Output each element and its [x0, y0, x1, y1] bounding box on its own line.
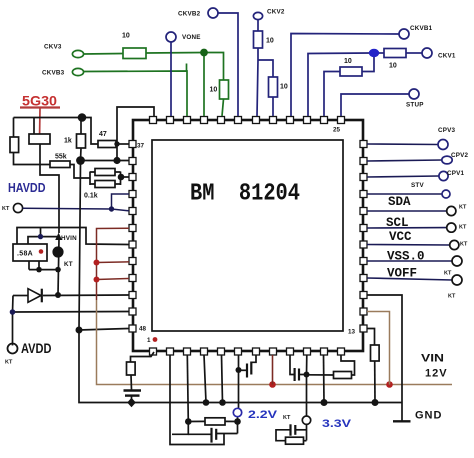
wire pin 15 GND route [367, 295, 402, 421]
node junction (82,118) [78, 113, 87, 122]
svg-text:CPV1: CPV1 [447, 170, 465, 177]
connector CKV1 [422, 48, 432, 58]
wire pin 7 to cap [251, 355, 256, 362]
wire cap right lead [299, 374, 307, 376]
wire x=79 vertical to GND rail [79, 163, 402, 403]
resistor right lead [304, 440, 307, 442]
node dot (306.5,374.5) [304, 372, 310, 378]
wire below 2.2V circle [237, 417, 239, 434]
5G30 red underline [20, 106, 60, 108]
svg-text:STV: STV [411, 182, 424, 189]
connector 2.2V (blue circle) [233, 408, 241, 416]
svg-text:13: 13 [348, 329, 356, 336]
wire CKVB3 stub [186, 64, 188, 72]
wire cap to GND rail [131, 396, 133, 403]
connector VONE [166, 32, 176, 42]
svg-text:CKV2: CKV2 [267, 9, 285, 16]
svg-text:KT: KT [460, 242, 468, 248]
diode D1 [28, 289, 41, 303]
svg-text:CKVB3: CKVB3 [42, 70, 65, 77]
connector SCL KT [447, 223, 456, 232]
node red dot (272.5,385) [269, 381, 276, 388]
wire branch to pin 26 [324, 72, 340, 117]
node dot (12.5,312) [10, 309, 16, 315]
resistor (3.3V) [286, 437, 304, 444]
connector CKVB3 [72, 68, 83, 75]
svg-text:10: 10 [280, 84, 288, 91]
svg-text:48: 48 [139, 326, 147, 333]
resistor (2.2V) [205, 418, 225, 425]
op-amp U1 BM81204 outer body [133, 120, 363, 351]
resistor 55k [50, 161, 70, 168]
svg-text:.58A: .58A [17, 251, 33, 258]
connector STUP [409, 89, 419, 99]
wire AVDD row to pin 47 [13, 311, 130, 314]
svg-text:CKV1: CKV1 [438, 53, 456, 60]
resistor 10 (CKV2 lower) [269, 77, 278, 97]
resistor below pin1 [127, 362, 136, 375]
connector CKV2 [253, 12, 262, 19]
node KT line junction [109, 206, 114, 211]
node dot (238.5,370) [236, 367, 242, 373]
0.1k leads [90, 172, 121, 184]
wire pin 20 SDA [367, 210, 447, 212]
resistor 47 [98, 141, 116, 148]
connector STV [442, 190, 450, 198]
svg-text:KT: KT [2, 206, 10, 212]
wire node down to pin 33 [203, 53, 205, 117]
wire 1k bottom lead [80, 148, 83, 161]
connector CPV2 [442, 156, 452, 164]
wire 47 to pin 37 [116, 143, 129, 145]
wire CKVB1 to pin 28 [291, 34, 399, 117]
node dot (237.5,421.5) [234, 418, 241, 425]
wire brown riser + rail [97, 300, 453, 385]
wire CKV2 down [257, 20, 259, 31]
connector SDA KT [447, 206, 456, 215]
connector KT (left) [13, 203, 22, 212]
wire pin 3 drop [187, 355, 188, 422]
wire VONE to pin 35 [170, 42, 172, 116]
U1 inner die outline [152, 140, 343, 331]
node junction (117,160.5) [113, 157, 120, 164]
wire blue node to pin 27 [308, 53, 370, 116]
svg-text:KT: KT [459, 225, 467, 231]
red dot in .58A box [39, 249, 44, 254]
5G30 red lead wire [39, 109, 42, 141]
svg-text:VOFF: VOFF [387, 267, 417, 281]
node dot (131.5,402.5) [127, 398, 136, 407]
0.1k pair left bracket [89, 172, 91, 186]
node junction (117,144) [114, 141, 119, 146]
node junction (121,177) [118, 174, 125, 181]
svg-text:CPV2: CPV2 [451, 152, 469, 159]
wire pin43 net upper rail [17, 228, 129, 245]
wire CKV3 to R [84, 53, 123, 56]
node dot (206,402.5) [203, 399, 210, 406]
wire node row y=160 to pin 38 [81, 160, 130, 162]
wire node right [204, 53, 224, 81]
resistor (pin13) [371, 345, 380, 361]
wire resistor top lead [13, 118, 15, 138]
node red dot (96.5,279.5) [94, 277, 100, 283]
svg-text:CKV3: CKV3 [44, 44, 62, 51]
wire pin 42 red [97, 228, 130, 300]
svg-text:37: 37 [137, 143, 145, 150]
svg-text:CKVB2: CKVB2 [178, 11, 201, 18]
svg-text:25: 25 [333, 127, 341, 134]
GND bar [393, 420, 411, 422]
wire pin 16 VOFF [367, 278, 452, 280]
wire STUP to pin 25 [341, 94, 409, 116]
resistor 10 (vertical green) [220, 80, 229, 99]
U1 pins top row [150, 117, 345, 124]
wire resistor bottom to 55k [14, 153, 51, 165]
wire pin 8 VIN drop (dark red) [272, 355, 274, 385]
wire pin 19 SCL [367, 227, 447, 229]
node dot (40.5,236.6) [38, 234, 43, 239]
svg-text:KT: KT [283, 415, 291, 421]
capacitor C (pin7) plates [246, 364, 248, 378]
node (green junction) [200, 49, 208, 57]
wire KT line to pins 40/41 (navy) [23, 194, 129, 211]
wire pin 18 VCC [367, 244, 450, 247]
wire cap left lead [188, 433, 211, 435]
U1 pins right column [360, 141, 367, 333]
svg-text:BM 81204: BM 81204 [190, 181, 300, 208]
svg-text:VIN: VIN [421, 353, 444, 365]
svg-text:CPV3: CPV3 [438, 127, 456, 134]
connector CKV3 [72, 50, 83, 57]
wire box top leads [28, 228, 59, 244]
svg-text:STUP: STUP [406, 102, 424, 109]
wire CKVB2 to pin 31 [218, 13, 238, 116]
connector 3.3V circle [302, 416, 310, 424]
node (blue junction CKV1) [369, 49, 379, 57]
svg-text:KT: KT [444, 271, 452, 277]
node dot (58,269.6) [55, 267, 61, 273]
test point big dot KT [52, 246, 63, 257]
resistor 0.1k lower [95, 181, 115, 188]
wire blue node down branch [362, 53, 374, 72]
connector AVDD KT circle [8, 344, 18, 354]
wire pin 13 to resistor [367, 295, 411, 421]
wire branch right [258, 60, 273, 77]
wire HVIN vertical [58, 239, 59, 295]
wire resistor to pin 29 [272, 97, 274, 116]
node dot (375,402.5) [372, 399, 379, 406]
wire cap right lead [217, 433, 238, 435]
wire pin3 to cap [172, 422, 188, 435]
wire box bottom leads [29, 261, 59, 270]
resistor 10 (CKV2 upper) [254, 31, 263, 48]
wire pin 5 drop [222, 355, 223, 403]
wire pin 2 long drop [170, 355, 224, 445]
node dot (222.5,402.5) [219, 399, 226, 406]
wire pin 9 drop [290, 355, 294, 375]
wire pin 4 drop [204, 355, 206, 403]
0.1k right bracket [120, 172, 122, 186]
wire pin 12 dogleg [341, 355, 355, 375]
svg-text:0.1k: 0.1k [84, 193, 98, 200]
wire pin 17 VSS.0 [367, 260, 452, 262]
wire to pin 48 [79, 329, 129, 331]
svg-text:HVIN: HVIN [61, 235, 77, 242]
resistor leads [188, 420, 237, 422]
resistor (pin12 to pin10 node) [334, 372, 352, 379]
svg-text:SCL: SCL [386, 216, 409, 230]
resistor R left vertical [10, 137, 19, 153]
resistor 0.1k upper [95, 169, 115, 176]
resistor bottom lead [374, 361, 376, 403]
svg-text:10: 10 [266, 38, 274, 45]
wire resistor to cap [130, 375, 133, 390]
wire diode anode [13, 295, 28, 297]
node dot (188.3,421.5) [185, 418, 192, 425]
connector CKVB1 [399, 29, 409, 39]
wire 0.1k to pin 39 [121, 176, 129, 178]
node red dot (96.5,262.5) [94, 260, 100, 266]
node dot (39,269.6) [36, 267, 42, 273]
wire CKV1 to resistor [406, 52, 422, 54]
resistor 10 (CKV1 branch) [340, 67, 362, 76]
node dot (324,402.5) [321, 399, 328, 406]
connector VOFF KT [452, 275, 462, 285]
svg-text:1: 1 [147, 337, 151, 344]
connector CPV3 [438, 140, 448, 150]
wire pin 10 drop [306, 355, 308, 416]
svg-text:KT: KT [448, 294, 456, 300]
wire to branch node [257, 48, 258, 116]
wire resistor to blue node [374, 52, 384, 54]
wire AVDD riser [12, 296, 15, 346]
wire pin 23 to CPV2 [367, 160, 442, 161]
fuse .58A box [13, 244, 47, 261]
wire resistor to pin 32 [222, 99, 224, 116]
svg-text:KT: KT [64, 261, 73, 268]
svg-text:2.2V: 2.2V [248, 409, 278, 421]
resistor 10 (CKV1) [384, 49, 406, 58]
svg-text:12V: 12V [425, 368, 448, 380]
wire pin 14 brown route [367, 312, 390, 385]
node junction (80.5,160.5) [76, 156, 85, 165]
svg-text:VONE: VONE [182, 34, 201, 41]
wire top rail y=117 [14, 117, 83, 119]
wire diode line to pin 46 [43, 294, 129, 297]
wire cap left lead to pin6 node [239, 369, 248, 371]
wire red to pin 45 [97, 279, 130, 280]
svg-text:KT: KT [459, 205, 467, 211]
wire rail to 47 resistor L [82, 118, 98, 145]
capacitor C (pin1) plates [124, 389, 142, 391]
wire pin 6 drop [238, 355, 240, 408]
svg-text:1k: 1k [64, 138, 72, 145]
node dot (58,294.8) [55, 292, 61, 298]
wire 1k top lead [80, 120, 82, 134]
resistor left lead [307, 374, 334, 376]
svg-text:VSS.0: VSS.0 [387, 250, 425, 264]
node red dot (389.5,385) [386, 381, 393, 388]
capacitor C (pin9) plates [294, 368, 296, 381]
svg-text:10: 10 [122, 33, 130, 40]
resistor 10 (CKV3) [123, 48, 146, 59]
capacitor C (3.3V block) plates [289, 424, 291, 435]
svg-text:HAVDD: HAVDD [8, 181, 46, 195]
wire cap left loop [276, 430, 291, 441]
wire CKVB3 to pin 34 [84, 71, 187, 116]
connector CPV1 [439, 171, 448, 180]
svg-text:KT: KT [5, 360, 13, 366]
U1 pins bottom row [150, 348, 345, 355]
svg-text:55k: 55k [55, 154, 67, 161]
wire red to pin 44 [97, 261, 130, 264]
svg-text:5G30: 5G30 [22, 94, 57, 109]
svg-text:3.3V: 3.3V [322, 418, 352, 430]
HVIN arrow [55, 233, 62, 240]
svg-text:10: 10 [389, 63, 397, 70]
wire box top lead [33, 118, 35, 135]
capacitor C (2.2V block) plates [210, 428, 212, 443]
svg-text:AVDD: AVDD [21, 340, 52, 356]
wire pin 21 to STV [367, 193, 442, 195]
svg-text:CKVB1: CKVB1 [410, 25, 433, 32]
svg-text:GND: GND [415, 410, 442, 422]
wire pin 24 to CPV3 [367, 143, 438, 146]
node dot (79,330) [76, 327, 83, 334]
wire pin 22 to CPV1 [367, 176, 439, 177]
resistor 1k vertical [77, 134, 86, 148]
connector VCC KT [450, 240, 459, 249]
wire box bottom lead L to HVIN drop [40, 144, 59, 233]
wire below 3.3V circle [306, 424, 308, 440]
svg-text:10: 10 [210, 87, 218, 94]
connector CKVB2 [208, 8, 218, 18]
wire R to node [146, 52, 204, 55]
svg-text:VCC: VCC [389, 230, 412, 244]
connector VSS KT [452, 256, 462, 266]
svg-text:47: 47 [99, 131, 107, 138]
wire riser x=117 [117, 107, 154, 161]
U1 pins left column [129, 141, 136, 333]
wire cap right lead [295, 429, 306, 431]
wire 55k right lead L [70, 165, 90, 179]
resistor 5G30 box [29, 134, 50, 144]
wire pin 1 dogleg [131, 352, 155, 362]
svg-text:SDA: SDA [388, 195, 411, 209]
svg-text:10: 10 [344, 58, 352, 65]
wire pin 11 drop [323, 355, 326, 403]
